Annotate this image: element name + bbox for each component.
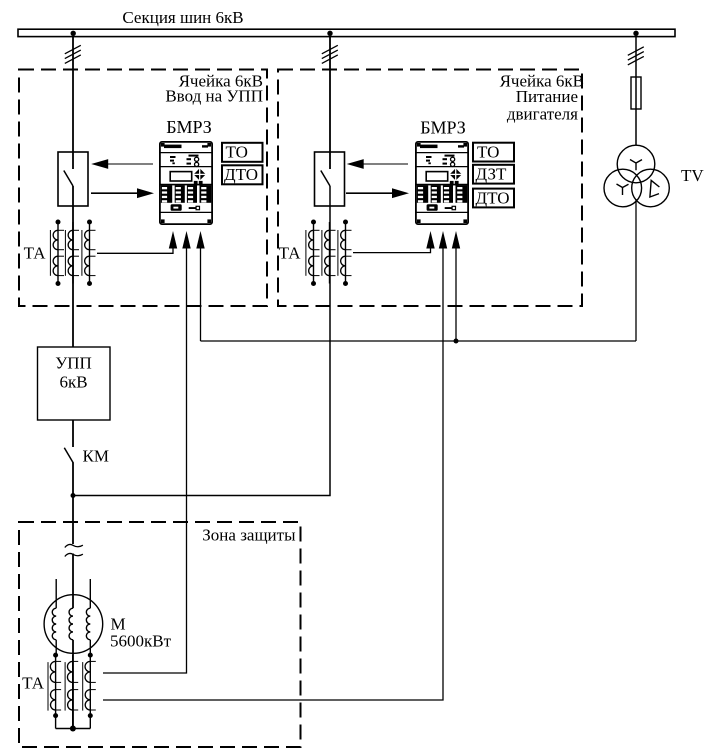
svg-text:ДТО: ДТО (224, 165, 258, 184)
motor M circle (44, 595, 103, 654)
label BMRZ 1 (166, 117, 212, 137)
svg-text:двигателя: двигателя (507, 105, 578, 124)
wire motor TA star tie (56, 728, 91, 730)
svg-text:ТО: ТО (477, 143, 499, 162)
svg-text:Зона защиты: Зона защиты (202, 526, 296, 545)
svg-text:ТА: ТА (279, 243, 302, 262)
wire status arrow breaker1 to relay1 (91, 188, 154, 198)
label motor M 5600kW (110, 615, 172, 651)
label box TO cell 1 (222, 143, 263, 162)
node TV wire to relay2 (454, 339, 459, 344)
wire relay1 input 2 from motor TA (103, 231, 191, 673)
label TV (681, 166, 704, 185)
contactor KM (64, 447, 109, 466)
current transformer TA motor (48, 653, 96, 729)
svg-text:ТА: ТА (24, 243, 47, 262)
label cell 2 title (500, 72, 584, 124)
fuse FU (631, 77, 641, 109)
wire feeder 1 upper (72, 36, 74, 169)
wire relay2 input 2 from motor TA (103, 231, 447, 700)
svg-text:5600кВт: 5600кВт (110, 632, 172, 651)
busbar Секция шин 6кВ (18, 29, 675, 36)
label box DTO cell 2 (473, 188, 514, 207)
svg-text:Питание: Питание (516, 87, 578, 106)
label TA cell 1 (24, 243, 47, 262)
wire break to motor (72, 554, 74, 609)
svg-text:УПП: УПП (55, 354, 92, 373)
label box TO cell 2 (473, 143, 514, 162)
svg-text:ДЗТ: ДЗТ (476, 165, 508, 184)
wire relay2 input 3 from TV (452, 231, 460, 341)
cell 1 dashed enclosure (19, 70, 267, 307)
svg-text:6кВ: 6кВ (59, 373, 87, 392)
three-phase mark feeder 3 (628, 47, 644, 65)
current transformer TA cell 1 (50, 220, 95, 287)
three-phase mark feeder 1 (65, 45, 81, 63)
wire trip arrow relay2 to breaker2 (347, 159, 408, 169)
svg-text:ТА: ТА (22, 674, 45, 693)
label protection zone (202, 526, 296, 545)
svg-text:TV: TV (681, 166, 704, 185)
node bypass junction (71, 493, 76, 498)
svg-text:КМ: КМ (83, 447, 109, 466)
circuit breaker Q1 cell 1 (58, 152, 88, 206)
three-phase mark feeder 2 (322, 45, 338, 63)
node motor TA star point (70, 726, 76, 732)
svg-text:Секция шин 6кВ: Секция шин 6кВ (122, 8, 243, 27)
relay BMRZ 1 (160, 142, 212, 224)
svg-text:Ввод на УПП: Ввод на УПП (165, 87, 263, 106)
voltage transformer TV (604, 145, 669, 207)
label BMRZ 2 (420, 118, 466, 138)
current transformer TA cell 2 (306, 220, 352, 287)
label cell 1 title (165, 72, 263, 106)
node bus tap 3 (633, 31, 638, 36)
motor windings (52, 608, 90, 640)
wire feeder 2 upper (329, 36, 331, 169)
wire TA2 to relay2 input 1 (353, 231, 435, 253)
circuit breaker Q2 cell 2 (315, 152, 345, 206)
wire feeder 2 breaker to bypass corner (73, 186, 330, 496)
wire TA1 to relay1 input 1 (97, 231, 177, 253)
svg-text:БМРЗ: БМРЗ (420, 118, 466, 138)
label TA motor (22, 674, 45, 693)
wire UPP to KM (72, 420, 74, 447)
protection zone dashed enclosure (19, 522, 301, 747)
cable break mark (65, 544, 83, 556)
wire feeder 3 upper (635, 36, 637, 77)
label box DTO cell 1 (222, 165, 263, 184)
wire trip arrow relay1 to breaker1 (91, 159, 153, 169)
label box DZT cell 2 (473, 165, 514, 184)
wire KM to junction (72, 463, 74, 545)
motor stator leads (56, 579, 90, 655)
wire fuse to TV (635, 109, 637, 146)
node bus tap 2 (327, 31, 332, 36)
wire motor winding to star (72, 640, 74, 729)
soft starter UPP box (38, 347, 111, 420)
relay BMRZ 2 (416, 142, 468, 224)
wire TV down (635, 199, 637, 341)
wire TV measurement bus (201, 340, 637, 342)
svg-text:БМРЗ: БМРЗ (166, 117, 212, 137)
label TA cell 2 (279, 243, 302, 262)
cell 2 dashed enclosure (278, 70, 582, 307)
node bus tap 1 (71, 31, 76, 36)
svg-text:ТО: ТО (226, 143, 248, 162)
wire status arrow breaker2 to relay2 (346, 188, 409, 198)
wire feeder 1 breaker to UPP (72, 186, 74, 347)
wire relay1 input 3 from TV (196, 231, 204, 341)
svg-text:ДТО: ДТО (476, 188, 510, 207)
bus section 6kV title (122, 8, 243, 27)
